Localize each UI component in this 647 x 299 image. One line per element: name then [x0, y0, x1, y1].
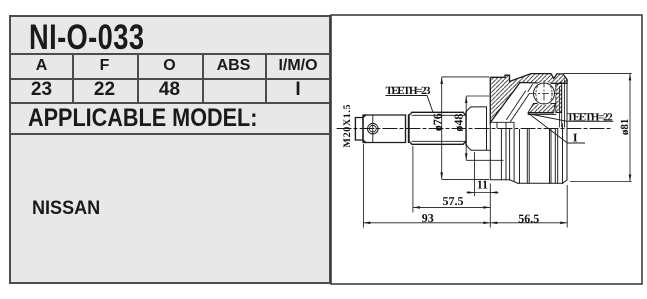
title NI-O-033 — [29, 18, 144, 58]
header O — [137, 57, 202, 75]
header A — [11, 57, 72, 75]
NISSAN model name — [32, 198, 100, 220]
arrowheads dim 57.5 — [413, 206, 420, 209]
bell bottom rim — [490, 179, 509, 181]
arrowheads dim 11 — [468, 191, 475, 194]
cage lines in cavity — [507, 85, 533, 122]
arrowheads phi76 — [440, 77, 443, 84]
row line under values — [11, 102, 329, 104]
svg-text:ø48: ø48 — [451, 114, 465, 132]
bore opening line — [491, 122, 514, 128]
boot seat fillets — [466, 107, 472, 150]
bell bottom max line — [518, 182, 563, 184]
dim 93 lines — [363, 144, 490, 228]
svg-text:TEETH=22: TEETH=22 — [567, 111, 614, 123]
ball race groove (white) — [532, 82, 556, 106]
bell bottom half: mouth face — [489, 123, 491, 180]
drawing frame — [331, 15, 642, 284]
value A=23 — [11, 79, 72, 101]
arrowheads dim 56.5 — [490, 222, 497, 225]
value O=48 — [137, 79, 202, 101]
header F — [72, 57, 137, 75]
arrowheads phi81 — [629, 73, 632, 80]
center line (dash-dot) — [337, 128, 610, 130]
header ABS — [202, 57, 265, 75]
TEETH=23 leader — [386, 96, 434, 113]
column line 3 — [202, 55, 204, 102]
bell back wall hatch — [556, 82, 562, 113]
boot seat lines — [472, 107, 491, 150]
column line 4 — [265, 55, 267, 102]
ball — [534, 83, 555, 104]
boot groove verticals — [501, 130, 509, 180]
svg-text:57.5: 57.5 — [443, 194, 464, 208]
inner race hatch — [528, 104, 555, 113]
svg-text:ø76: ø76 — [430, 113, 444, 131]
header I/M/O — [265, 57, 331, 75]
ball crosshair — [529, 81, 559, 108]
APPLICABLE MODEL heading — [28, 104, 257, 133]
value F=22 — [72, 79, 137, 101]
svg-text:ø81: ø81 — [619, 119, 631, 135]
bore top thick line — [528, 112, 554, 114]
back face — [566, 80, 568, 180]
back ring verticals (top half) — [559, 80, 564, 127]
shared extension line at bell mouth — [489, 184, 491, 228]
arrowheads phi48 — [465, 96, 468, 103]
column line 2 — [137, 55, 139, 102]
spline root lines — [412, 115, 466, 141]
shaft end cap — [355, 115, 365, 143]
TEETH=22 leader — [533, 115, 614, 122]
row line under title — [11, 53, 329, 55]
dim 11 lines — [467, 152, 499, 196]
left spec table panel — [9, 15, 331, 284]
column line 1 — [72, 55, 74, 102]
dim 57.5 lines — [413, 146, 490, 213]
svg-text:11: 11 — [477, 178, 488, 192]
slant to max diameter — [510, 180, 518, 184]
thread circle symbol — [368, 123, 379, 134]
back chamfer — [563, 180, 568, 183]
thread circle vertical line — [372, 116, 374, 143]
bell body verticals — [514, 124, 562, 183]
cage arcs inside ball — [536, 86, 552, 101]
svg-text:93: 93 — [422, 211, 434, 225]
shaft body — [363, 115, 409, 143]
value I/M/O=I — [265, 79, 331, 101]
svg-text:56.5: 56.5 — [518, 211, 539, 225]
bore spline line — [528, 113, 556, 115]
dim 56.5 lines — [490, 185, 567, 228]
row line under header — [11, 78, 329, 80]
svg-text:I: I — [573, 130, 578, 144]
dim phi81 line — [563, 73, 631, 181]
arrowheads dim 93 — [363, 222, 370, 225]
I leader — [528, 113, 585, 143]
dim phi76 line — [442, 77, 489, 179]
bell housing section hatch (top half) — [490, 74, 567, 123]
row line under APPLICABLE MODEL — [11, 133, 329, 135]
svg-text:M20X1.5: M20X1.5 — [342, 105, 353, 148]
spline section outline — [409, 112, 466, 144]
dim phi48 line — [466, 96, 503, 160]
svg-text:TEETH=23: TEETH=23 — [386, 85, 432, 97]
